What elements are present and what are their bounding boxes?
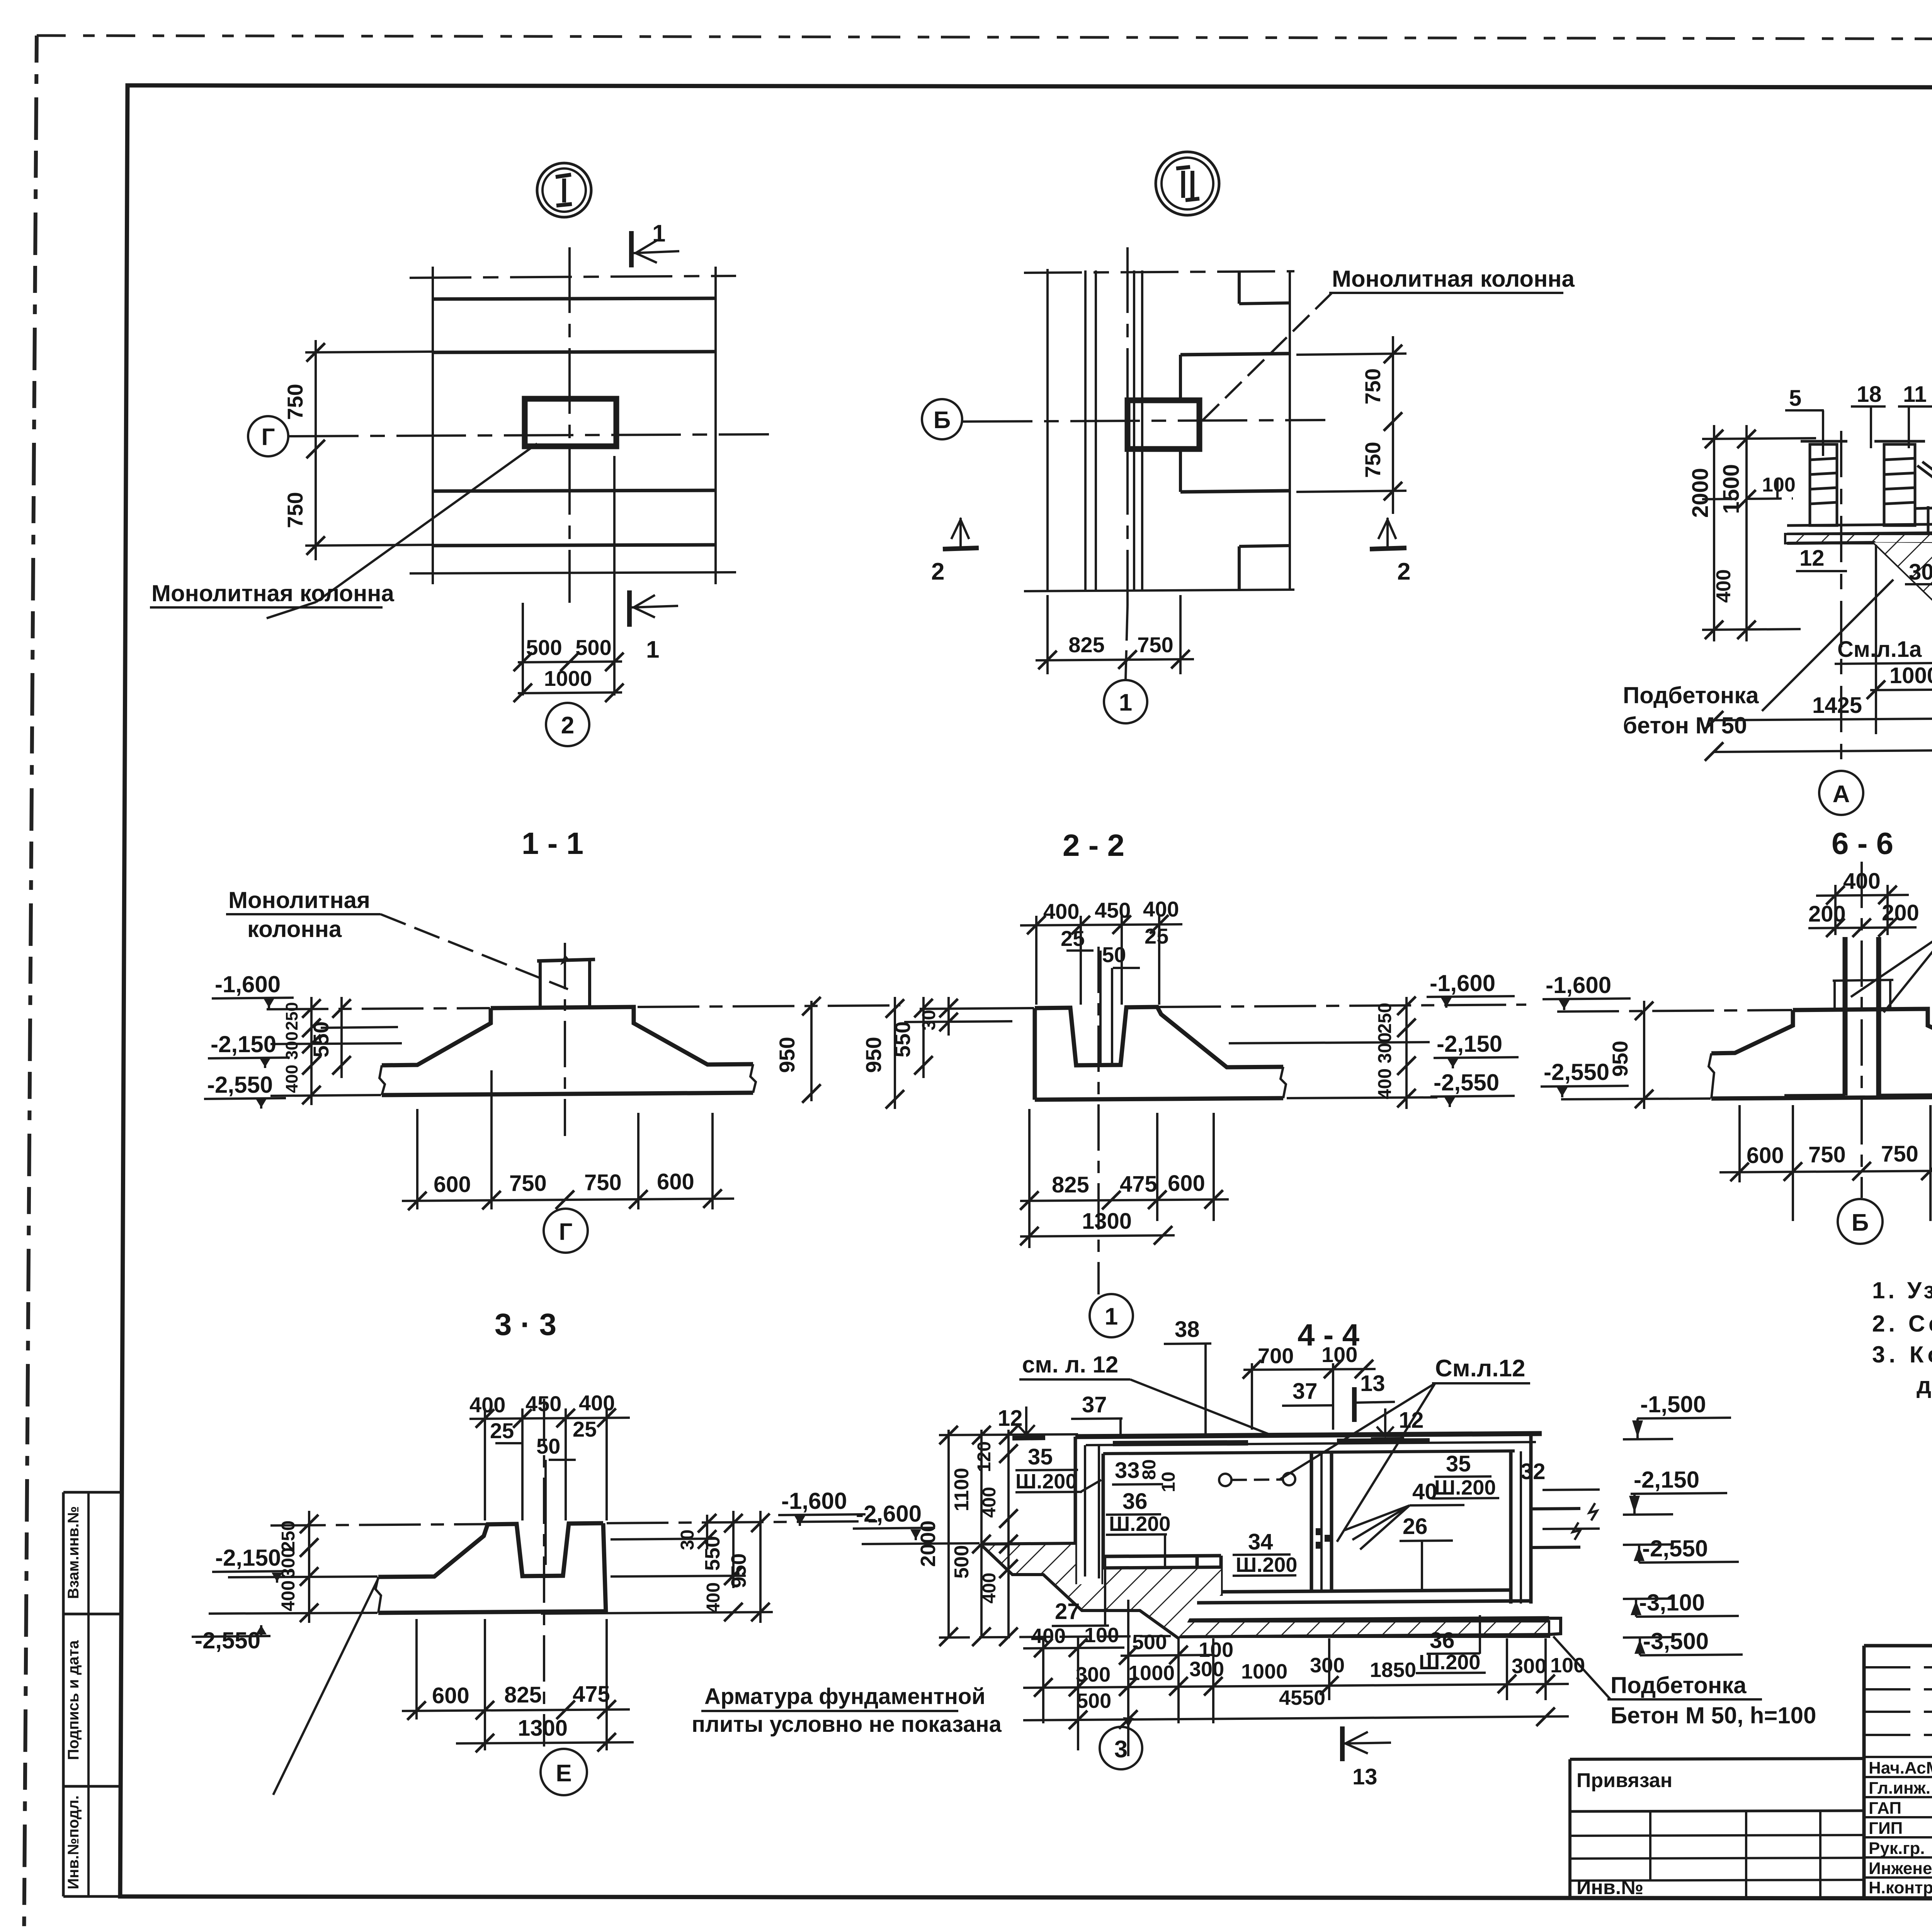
svg-text:38: 38 [1175, 1317, 1200, 1342]
svg-text:1300: 1300 [518, 1716, 568, 1741]
svg-text:13: 13 [1360, 1371, 1385, 1396]
svg-text:Подбетонка: Подбетонка [1623, 682, 1759, 708]
svg-text:26: 26 [1403, 1514, 1428, 1539]
svg-text:-2,600: -2,600 [856, 1501, 922, 1527]
950 vertical dim [1643, 1001, 1645, 1109]
svg-text:Монолитная: Монолитная [228, 887, 370, 913]
svg-text:550: 550 [890, 1021, 915, 1057]
svg-text:до бетонирования.: до бетонирования. [1917, 1372, 1932, 1398]
row Г centerline [289, 434, 769, 436]
bottom dims [522, 603, 524, 696]
svg-text:Г: Г [261, 424, 275, 451]
svg-text:Ш.200: Ш.200 [1015, 1470, 1077, 1493]
section mark 1 top [629, 231, 634, 267]
top dims [469, 1391, 615, 1458]
bottom dims [402, 1619, 630, 1750]
svg-text:40: 40 [1412, 1479, 1437, 1504]
svg-text:100: 100 [1084, 1624, 1119, 1647]
svg-text:-2,550: -2,550 [1642, 1536, 1708, 1561]
svg-text:36: 36 [1430, 1628, 1455, 1653]
column outline [1833, 980, 1893, 981]
svg-text:27: 27 [1055, 1599, 1080, 1624]
svg-text:1 - 1: 1 - 1 [522, 826, 583, 861]
right wall niche lines [1531, 1509, 1580, 1509]
svg-text:колонна: колонна [247, 916, 342, 942]
svg-text:950: 950 [861, 1037, 886, 1073]
svg-text:300: 300 [1189, 1658, 1224, 1681]
svg-text:400: 400 [579, 1391, 615, 1415]
section mark 1 bottom [627, 590, 632, 627]
svg-text:Ш.200: Ш.200 [1236, 1553, 1297, 1577]
svg-text:-2,150: -2,150 [215, 1545, 281, 1571]
svg-text:См.л.12: См.л.12 [1435, 1355, 1525, 1382]
svg-text:750: 750 [1361, 442, 1385, 478]
svg-text:120: 120 [974, 1441, 995, 1472]
right side break mark [1543, 1490, 1600, 1490]
profile [1035, 1007, 1283, 1067]
outer cut border (dashed) [37, 36, 1932, 40]
svg-text:11: 11 [1903, 382, 1927, 407]
svg-text:-2,150: -2,150 [1634, 1467, 1699, 1493]
svg-text:Б: Б [934, 407, 951, 434]
rebar [1843, 937, 1848, 1095]
svg-text:33: 33 [1115, 1458, 1140, 1483]
svg-text:ГИП: ГИП [1869, 1819, 1903, 1838]
svg-text:12: 12 [1799, 546, 1825, 571]
svg-text:600: 600 [434, 1172, 471, 1197]
svg-text:Инженер: Инженер [1869, 1859, 1932, 1878]
right wall [1509, 1451, 1513, 1604]
footing profile [1793, 1009, 1932, 1053]
upper small rows [1864, 1666, 1932, 1668]
svg-text:400: 400 [1375, 1068, 1395, 1099]
column centerline vertical [568, 247, 571, 603]
bottom dims [402, 1070, 734, 1209]
bottom dims [1046, 595, 1049, 674]
left wall [1074, 1437, 1077, 1584]
node 2 bubble [546, 703, 589, 746]
svg-text:50: 50 [536, 1434, 560, 1458]
svg-text:1000: 1000 [544, 666, 592, 690]
main floor (right chamber) [1197, 1590, 1511, 1592]
svg-text:37: 37 [1293, 1379, 1318, 1404]
svg-text:2: 2 [931, 558, 944, 585]
footing profile [491, 1007, 753, 1065]
step wall [1196, 1556, 1199, 1596]
small top bars [1113, 1443, 1248, 1444]
node 1 bubble [1126, 606, 1128, 680]
svg-text:12: 12 [1399, 1408, 1424, 1433]
left stamp strip [63, 1491, 120, 1494]
svg-text:300: 300 [1310, 1654, 1345, 1677]
svg-text:475: 475 [573, 1682, 610, 1707]
left chamber floor [1103, 1556, 1221, 1556]
svg-text:Рук.гр.: Рук.гр. [1869, 1839, 1925, 1858]
svg-text:Б: Б [1852, 1209, 1869, 1236]
svg-text:400: 400 [1143, 897, 1179, 921]
left slab band [1787, 524, 1932, 526]
column [525, 399, 616, 446]
axis Б centerline [963, 420, 1325, 422]
svg-text:6 - 6: 6 - 6 [1832, 826, 1893, 861]
left wing slab with two posts [1787, 441, 1932, 534]
svg-text:2000: 2000 [1688, 468, 1713, 518]
svg-text:-3,100: -3,100 [1639, 1590, 1705, 1616]
under-slab base strip hatched [1785, 534, 1932, 543]
svg-text:825: 825 [504, 1682, 542, 1708]
svg-text:400: 400 [282, 1065, 301, 1093]
svg-text:700: 700 [1258, 1344, 1294, 1368]
node Б bubble [922, 399, 962, 439]
elevation marks left [207, 971, 281, 1098]
level lines [228, 1577, 378, 1577]
svg-text:Н.контр: Н.контр [1869, 1878, 1932, 1897]
svg-text:250: 250 [278, 1520, 299, 1551]
svg-text:30: 30 [919, 1010, 939, 1030]
pit hatched zones [1874, 543, 1932, 641]
svg-text:750: 750 [283, 492, 307, 528]
svg-text:600: 600 [1747, 1143, 1784, 1168]
svg-text:600: 600 [657, 1169, 694, 1194]
svg-text:Нач.АсМ-1: Нач.АсМ-1 [1869, 1759, 1932, 1777]
svg-text:750: 750 [1808, 1142, 1846, 1167]
svg-text:-3,500: -3,500 [1643, 1628, 1709, 1654]
svg-text:300: 300 [1512, 1655, 1546, 1678]
svg-text:бетон М 50: бетон М 50 [1623, 713, 1747, 738]
svg-text:1. Узлы и сечения замаркирован: 1. Узлы и сечения замаркированы на листе… [1872, 1277, 1932, 1303]
svg-text:-2,150: -2,150 [1437, 1031, 1502, 1057]
svg-text:Арматура фундаментной: Арматура фундаментной [704, 1684, 985, 1709]
svg-text:400: 400 [1713, 569, 1735, 603]
bottom dim rows [1031, 1624, 1585, 1713]
svg-text:750: 750 [1137, 633, 1173, 657]
svg-text:Г: Г [559, 1219, 572, 1245]
top dims [1043, 897, 1179, 967]
section marks 2 [943, 548, 979, 549]
svg-text:80: 80 [1139, 1459, 1160, 1480]
13 section mark bottom [1340, 1726, 1345, 1761]
svg-text:-2,150: -2,150 [211, 1031, 276, 1057]
svg-text:Взам.инв.№: Взам.инв.№ [65, 1506, 82, 1599]
svg-text:Подпись и дата: Подпись и дата [65, 1640, 82, 1760]
svg-text:400: 400 [703, 1582, 724, 1613]
svg-text:500: 500 [1077, 1689, 1111, 1713]
bottom slab [1179, 1618, 1549, 1621]
right vertical dims [706, 1515, 708, 1549]
svg-text:-1,600: -1,600 [215, 971, 281, 997]
svg-text:1000: 1000 [1889, 663, 1932, 688]
svg-text:500: 500 [1132, 1631, 1167, 1654]
svg-text:25: 25 [490, 1418, 514, 1443]
anchor circles on slab [1219, 1474, 1231, 1486]
svg-text:30: 30 [1909, 560, 1932, 585]
svg-text:300: 300 [282, 1031, 301, 1060]
rungs on slab right part [1927, 506, 1930, 532]
svg-text:-1,500: -1,500 [1640, 1391, 1706, 1417]
wall lines vertical [1046, 269, 1049, 591]
svg-text:Инв.№: Инв.№ [1577, 1876, 1643, 1899]
svg-text:-2,550: -2,550 [207, 1072, 273, 1098]
svg-text:-2,550: -2,550 [195, 1628, 260, 1653]
svg-text:34: 34 [1248, 1529, 1273, 1554]
grid / slab edge lines [410, 276, 736, 278]
partition wall [1310, 1451, 1313, 1592]
svg-text:-2,550: -2,550 [1544, 1059, 1609, 1085]
column above footing [537, 959, 595, 961]
profile (mirror of 2-2) [378, 1523, 603, 1577]
elevations right [1634, 1391, 1709, 1654]
svg-text:см. л. 12: см. л. 12 [1022, 1352, 1118, 1378]
svg-text:1300: 1300 [1082, 1209, 1132, 1234]
svg-text:Е: Е [556, 1760, 571, 1787]
vertical dim 750/750 [315, 340, 317, 560]
svg-text:35: 35 [1446, 1451, 1471, 1476]
svg-text:5: 5 [1789, 386, 1801, 411]
svg-text:100: 100 [1550, 1654, 1585, 1677]
svg-text:плиты условно не показана: плиты условно не показана [692, 1712, 1002, 1737]
level lines [1557, 1010, 1792, 1012]
svg-text:2: 2 [561, 712, 574, 739]
svg-text:750: 750 [509, 1171, 547, 1196]
svg-text:750: 750 [1881, 1141, 1918, 1167]
svg-text:3. Коробку ставня ЗС-70 устано: 3. Коробку ставня ЗС-70 установить в опа… [1872, 1342, 1932, 1367]
svg-text:18: 18 [1857, 382, 1882, 407]
left vertical dims [310, 997, 313, 1105]
svg-text:400: 400 [1043, 899, 1079, 923]
svg-text:1000: 1000 [1241, 1660, 1287, 1683]
svg-text:36: 36 [1122, 1489, 1148, 1514]
pit excavation outline [1787, 543, 1932, 649]
svg-text:500: 500 [951, 1545, 973, 1579]
svg-text:475: 475 [1120, 1172, 1157, 1197]
svg-text:-1,600: -1,600 [1546, 972, 1611, 998]
centerline [1861, 862, 1863, 1198]
lower slab edge [1180, 491, 1290, 492]
svg-text:3: 3 [1114, 1736, 1128, 1763]
leader to label [316, 444, 537, 602]
svg-text:4550: 4550 [1279, 1686, 1325, 1709]
svg-text:500: 500 [575, 635, 611, 660]
node Г bubble [248, 416, 288, 456]
top right notch [1238, 272, 1241, 304]
svg-text:2. Сечения 12-12, 13-13 см. ли: 2. Сечения 12-12, 13-13 см. лист АС-11 [1872, 1311, 1932, 1337]
svg-text:Подбетонка: Подбетонка [1611, 1672, 1747, 1698]
centerline axis 1 vertical [1126, 247, 1129, 606]
svg-text:25: 25 [573, 1417, 597, 1441]
svg-text:300: 300 [1375, 1032, 1395, 1063]
svg-text:Ш.200: Ш.200 [1109, 1512, 1170, 1536]
svg-text:1: 1 [652, 220, 665, 247]
ground hatch left stepped zone [980, 1543, 1221, 1638]
column [1128, 400, 1199, 449]
13 section mark top [1352, 1387, 1357, 1422]
svg-text:500: 500 [526, 635, 562, 660]
svg-text:13: 13 [1352, 1764, 1378, 1789]
node I bubble [537, 163, 591, 217]
svg-text:Бетон М 50, h=100: Бетон М 50, h=100 [1611, 1702, 1816, 1728]
svg-text:-1,600: -1,600 [1430, 970, 1495, 996]
svg-text:750: 750 [584, 1170, 622, 1195]
grid bubbles [1840, 431, 1842, 771]
svg-text:1: 1 [646, 636, 659, 663]
svg-text:А: А [1833, 781, 1850, 808]
privyazan table [1570, 1759, 1864, 1759]
svg-text:825: 825 [1068, 633, 1104, 657]
centerline [1097, 947, 1100, 1294]
svg-text:1: 1 [1119, 689, 1132, 716]
svg-text:400: 400 [278, 1580, 299, 1611]
node II bubble [1156, 152, 1219, 215]
right vertical dims 950 [810, 1001, 813, 1101]
signature rows [1864, 1756, 1932, 1758]
svg-text:Ш.200: Ш.200 [1434, 1476, 1496, 1499]
svg-text:10: 10 [1158, 1472, 1179, 1492]
svg-text:1100: 1100 [951, 1468, 973, 1512]
top slab [1075, 1434, 1542, 1437]
svg-text:600: 600 [1168, 1171, 1205, 1196]
bottom right notch [1239, 546, 1290, 546]
svg-text:1425: 1425 [1812, 693, 1862, 718]
svg-text:300: 300 [278, 1548, 299, 1578]
rebar dots near partition [1316, 1528, 1323, 1535]
svg-text:750: 750 [283, 384, 307, 420]
svg-text:ГАП: ГАП [1869, 1799, 1901, 1818]
svg-text:2: 2 [1397, 558, 1410, 585]
svg-text:600: 600 [432, 1683, 469, 1708]
bottom edge line [1024, 590, 1294, 591]
svg-text:-1,600: -1,600 [781, 1488, 847, 1514]
left vertical dims [308, 1511, 310, 1623]
main stamp outline [1864, 1644, 1932, 1648]
svg-text:2 - 2: 2 - 2 [1063, 828, 1124, 862]
svg-text:100: 100 [1762, 474, 1796, 496]
svg-text:400: 400 [469, 1393, 505, 1417]
svg-text:Инв.№подл.: Инв.№подл. [65, 1795, 82, 1889]
svg-text:950: 950 [1608, 1041, 1632, 1077]
bottom dims [1719, 1105, 1932, 1221]
svg-text:550: 550 [701, 1536, 724, 1571]
elevations right [1430, 970, 1502, 1095]
svg-text:1850: 1850 [1370, 1658, 1416, 1682]
node 3 bubble [1100, 1727, 1142, 1769]
top dashed grid line [1024, 271, 1294, 273]
svg-text:950: 950 [775, 1037, 799, 1073]
diagonal brace from post2 [1917, 466, 1932, 510]
svg-text:450: 450 [1095, 898, 1131, 922]
svg-text:1: 1 [1105, 1303, 1118, 1330]
internal labels [1799, 443, 1932, 609]
level lines [267, 1008, 490, 1009]
svg-text:250: 250 [282, 1002, 301, 1030]
svg-text:3 · 3: 3 · 3 [495, 1307, 556, 1342]
top callout row [1789, 380, 1932, 439]
svg-text:750: 750 [1361, 368, 1385, 404]
svg-text:См.л.1а: См.л.1а [1837, 637, 1922, 662]
svg-text:Привязан: Привязан [1577, 1769, 1672, 1792]
svg-text:Монолитная колонна: Монолитная колонна [151, 580, 395, 606]
svg-text:950: 950 [727, 1553, 750, 1588]
svg-text:37: 37 [1082, 1392, 1107, 1417]
level lines [920, 1008, 1034, 1009]
svg-text:-2,550: -2,550 [1434, 1070, 1499, 1095]
svg-text:250: 250 [1375, 1003, 1395, 1034]
upper slab edge [1180, 354, 1290, 355]
left vertical dims [894, 997, 896, 1109]
svg-text:Гл.инж.: Гл.инж. [1869, 1779, 1930, 1798]
svg-text:825: 825 [1052, 1172, 1089, 1197]
svg-text:35: 35 [1028, 1444, 1053, 1469]
bottom dims [1020, 1109, 1229, 1248]
svg-text:Монолитная колонна: Монолитная колонна [1332, 266, 1575, 292]
centerline [543, 1399, 545, 1747]
svg-text:32: 32 [1520, 1459, 1546, 1484]
right vertical dims [1405, 997, 1408, 1109]
right vertical dim 750/750 [1392, 336, 1394, 514]
